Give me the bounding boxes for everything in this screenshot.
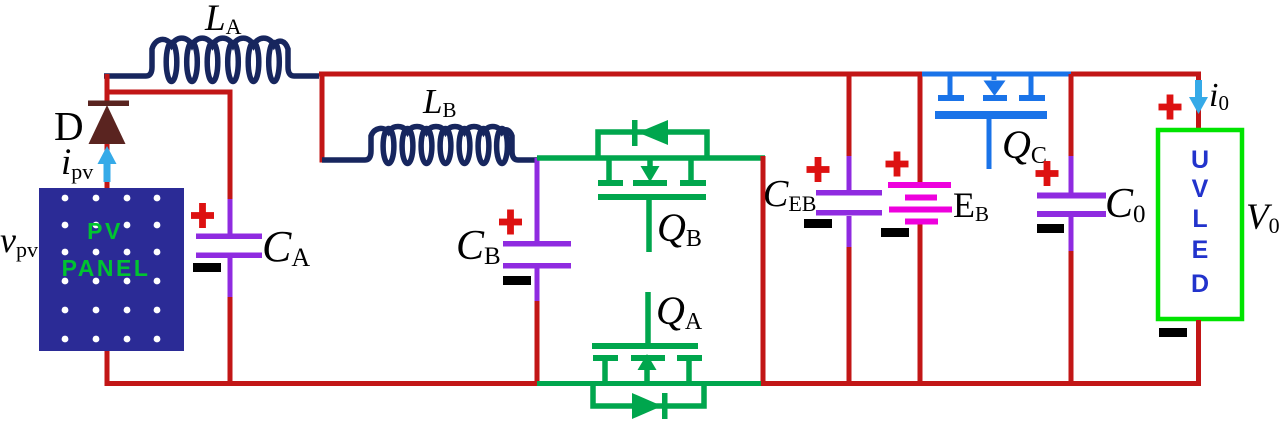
UVLED bottom lead — [1196, 320, 1201, 384]
wire: red vertical above CA — [228, 90, 233, 201]
plus mark CA — [191, 212, 214, 219]
wire: LB drop — [320, 72, 325, 163]
plus mark V0 — [1159, 104, 1182, 111]
minus mark CB — [503, 276, 531, 285]
minus mark C0 — [1037, 224, 1064, 233]
mosfet QB — [537, 132, 765, 252]
minus mark EB — [881, 228, 909, 237]
capacitor CB — [535, 158, 540, 242]
wire: QB right drop — [761, 156, 766, 386]
capacitor CA — [228, 199, 233, 234]
plus mark CB — [499, 219, 522, 226]
mosfet QA — [593, 292, 704, 406]
svg-text:V: V — [1192, 175, 1209, 203]
UVLED box — [1158, 130, 1242, 319]
wire: top bus red right + corner down — [1071, 72, 1201, 77]
wire: PV bottom lead — [105, 351, 110, 385]
minus mark CEB — [804, 219, 832, 228]
battery EB — [918, 74, 923, 186]
plus mark C0 — [1036, 170, 1059, 177]
svg-text:L: L — [1192, 205, 1207, 233]
inductor LB — [322, 127, 537, 160]
diode D — [88, 101, 129, 107]
svg-text:D: D — [1191, 270, 1209, 298]
svg-text:PANEL: PANEL — [62, 255, 151, 281]
wire: thin red diode to panel — [105, 144, 110, 189]
svg-text:PV: PV — [87, 218, 123, 244]
plus mark CEB — [807, 166, 830, 173]
minus mark V0 — [1159, 328, 1187, 337]
wire: bottom bus red left — [105, 381, 539, 386]
inductor LA — [104, 38, 319, 76]
wire: red vertical from LA-left node to diode — [105, 74, 110, 104]
current arrow ipv — [104, 160, 111, 182]
wire: bottom bus green (QA line) — [537, 381, 762, 386]
wire: red horizontal branch y=92 — [105, 90, 233, 95]
svg-text:U: U — [1191, 146, 1209, 174]
minus mark CA — [193, 263, 221, 272]
svg-text:E: E — [1192, 236, 1209, 264]
wire: bottom bus red right — [761, 381, 1201, 386]
wire: top bus red left segment — [319, 72, 922, 77]
PV panel — [39, 188, 184, 351]
capacitor C0 — [1069, 74, 1074, 158]
current arrow i0 — [1195, 80, 1202, 100]
plus mark EB — [886, 161, 909, 168]
capacitor CEB — [847, 74, 852, 158]
mosfet QC — [922, 74, 1071, 169]
